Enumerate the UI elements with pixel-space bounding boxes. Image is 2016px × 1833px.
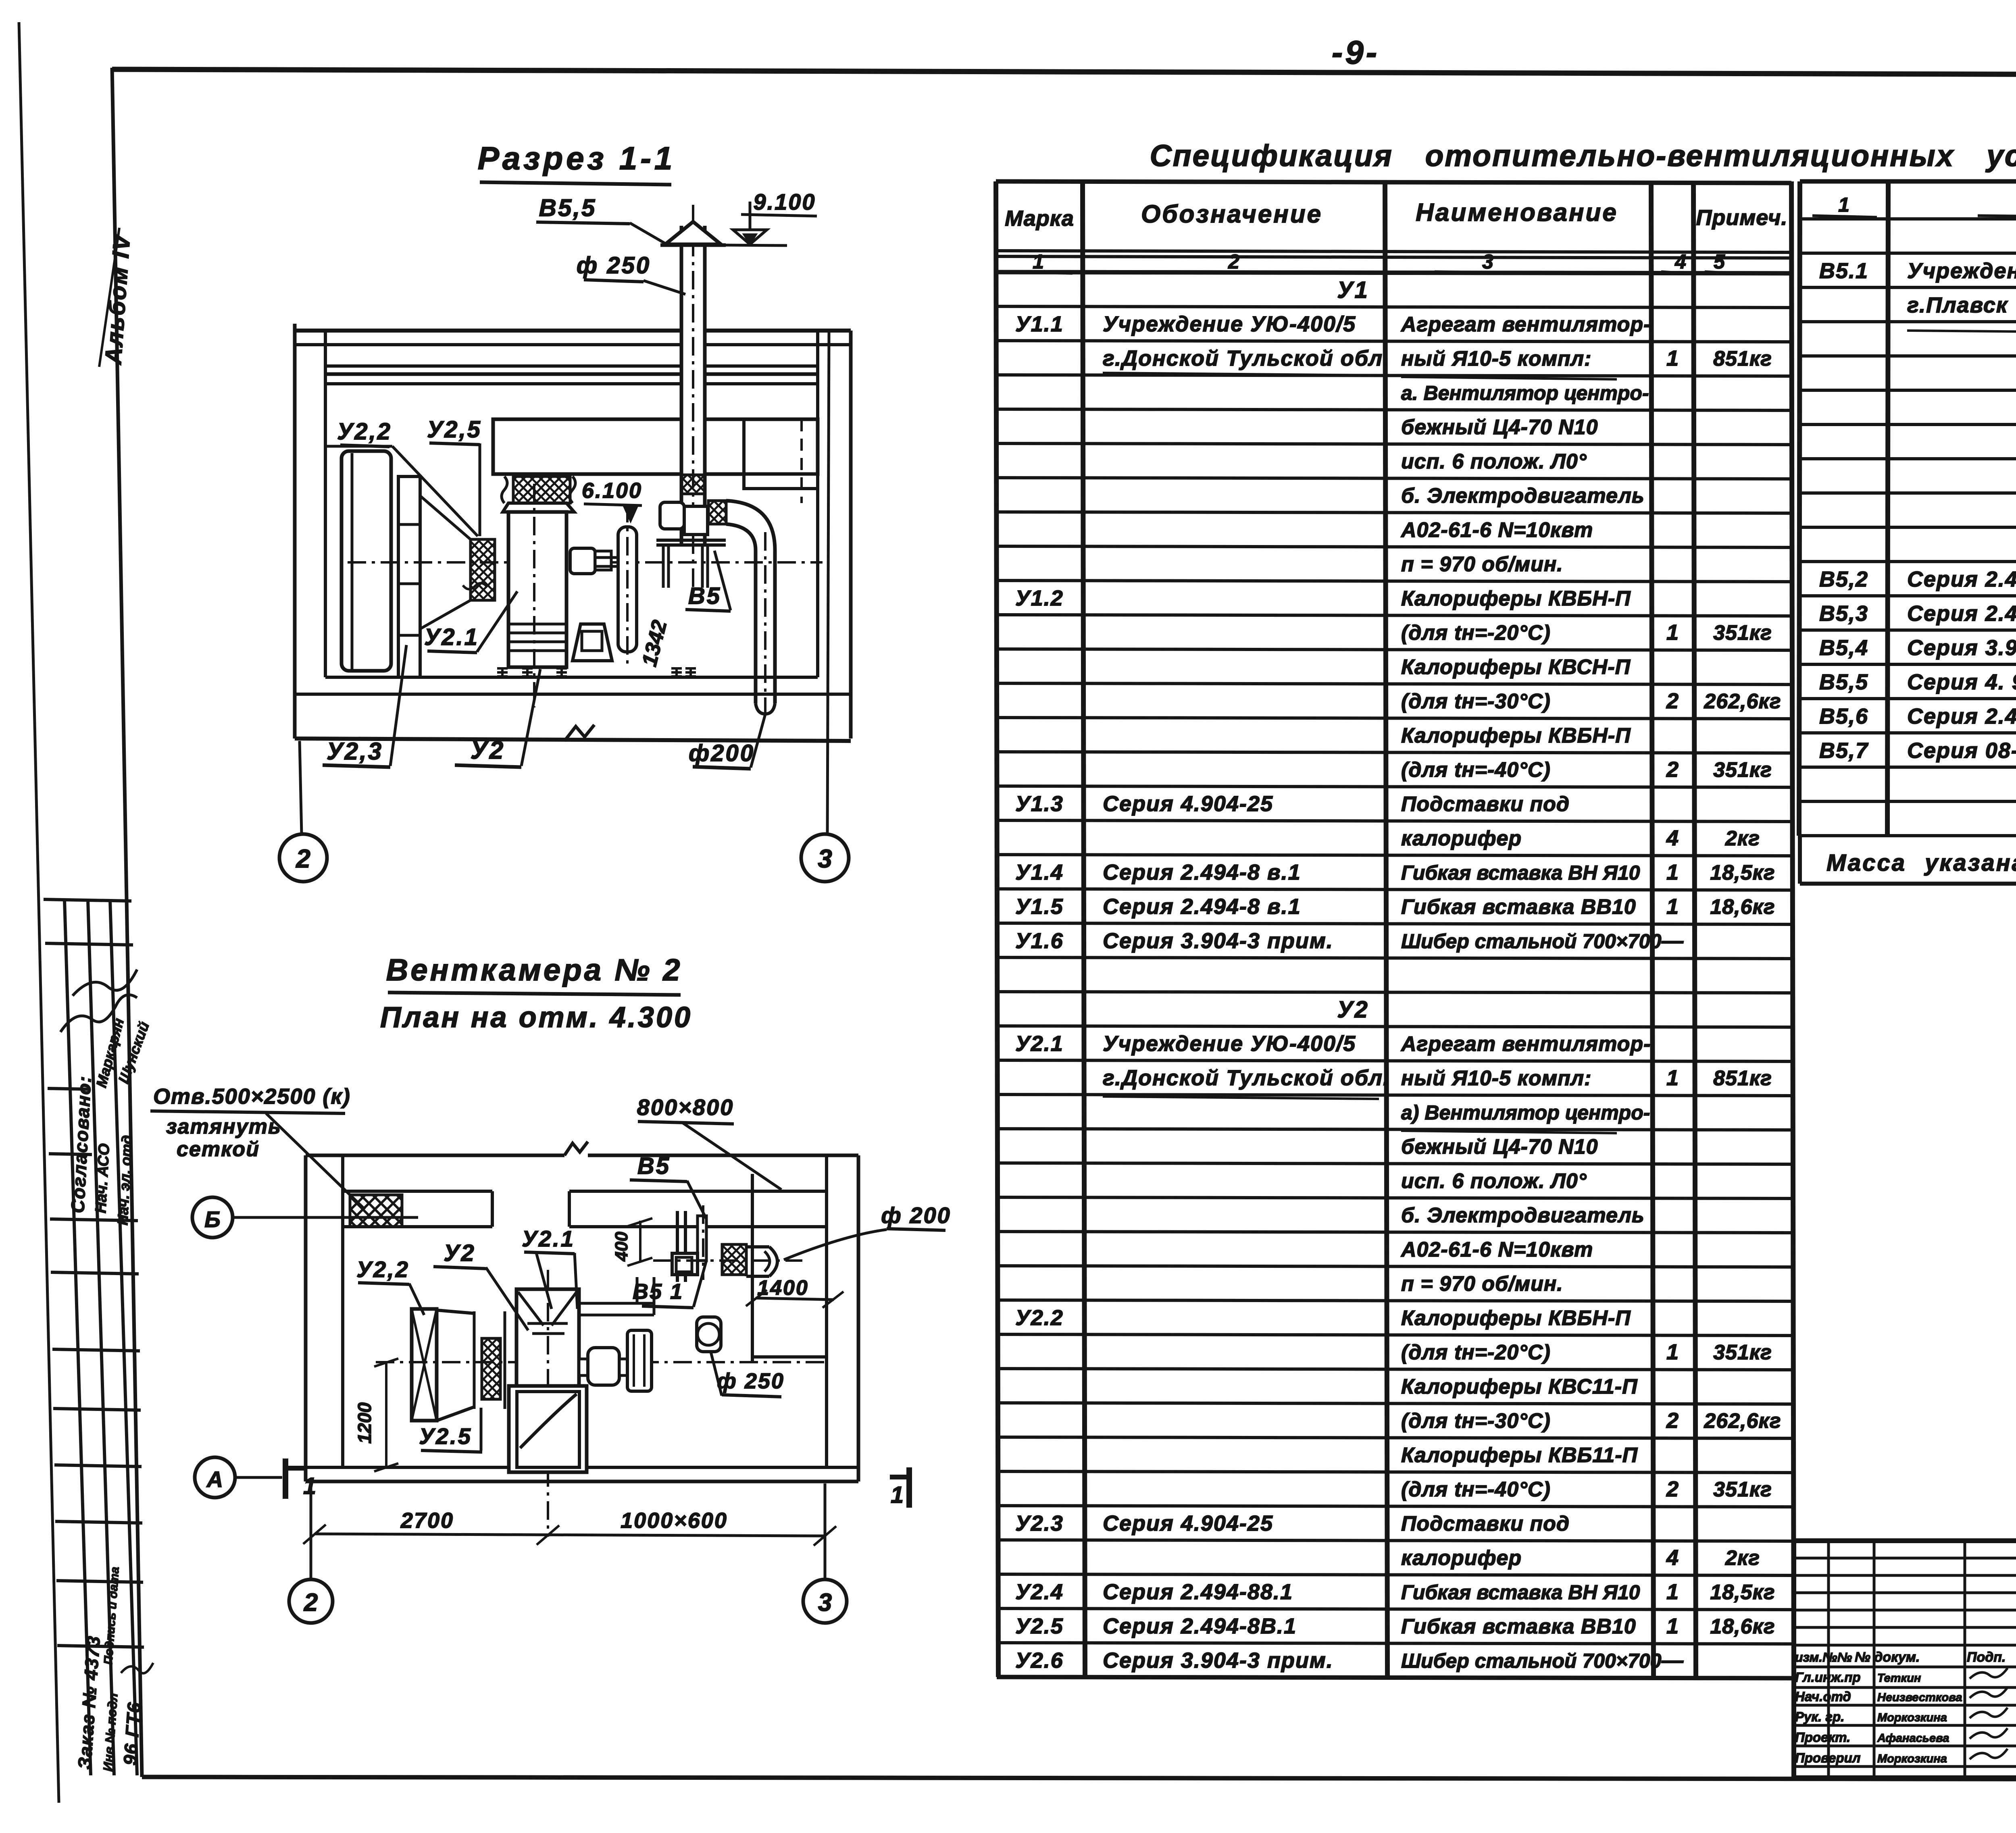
svg-text:Серия 3.904-3 прим.: Серия 3.904-3 прим. — [1103, 929, 1333, 953]
suction box У2.2 — [412, 1309, 437, 1421]
svg-text:исп. 6 полож. Л0°: исп. 6 полож. Л0° — [1401, 1169, 1587, 1193]
inner partition band — [343, 1190, 492, 1193]
svg-text:18,6кг: 18,6кг — [1710, 895, 1775, 919]
plan top wall with break — [306, 1154, 564, 1157]
svg-text:1: 1 — [1666, 860, 1679, 884]
svg-text:ный Я10-5 компл:: ный Я10-5 компл: — [1401, 347, 1591, 370]
svg-text:(для tн=-40°С): (для tн=-40°С) — [1401, 1478, 1551, 1501]
svg-text:Калориферы КВС11-П: Калориферы КВС11-П — [1401, 1375, 1638, 1398]
section mark 1 left — [283, 1458, 288, 1499]
svg-text:У2,2: У2,2 — [337, 418, 392, 445]
left approval strip table — [44, 899, 131, 901]
svg-text:Нач.отд: Нач.отд — [1795, 1689, 1851, 1704]
axis line 2 with circle — [300, 741, 302, 834]
fan У2.1 flange — [503, 503, 574, 512]
svg-text:2: 2 — [1666, 1409, 1679, 1433]
fan У2.1 bellows — [502, 476, 507, 503]
svg-text:В5: В5 — [637, 1153, 671, 1179]
svg-text:У1.1: У1.1 — [1015, 312, 1064, 336]
plan axis circle 3 — [824, 1483, 827, 1579]
svg-text:9.100: 9.100 — [753, 189, 816, 214]
svg-text:Подп.: Подп. — [1967, 1650, 2006, 1665]
svg-text:Учреждение УЮ-400/5: Учреждение УЮ-400/5 — [1103, 1032, 1356, 1056]
machine centerline — [348, 561, 823, 564]
svg-text:б. Электродвигатель: б. Электродвигатель — [1401, 484, 1645, 508]
svg-text:Рук. гр.: Рук. гр. — [1795, 1709, 1844, 1724]
svg-text:ф200: ф200 — [689, 740, 755, 766]
svg-text:Масса указана одного изд: Масса указана одного изделия — [1826, 850, 2016, 876]
paper left edge line — [19, 22, 59, 1803]
svg-text:У2.6: У2.6 — [1015, 1648, 1064, 1673]
svg-text:У1.6: У1.6 — [1015, 929, 1064, 953]
fan centerline — [533, 484, 535, 707]
duct chase vertical — [751, 1174, 754, 1363]
svg-text:Гибкая вставка ВН Я10: Гибкая вставка ВН Я10 — [1401, 861, 1640, 884]
svg-text:Серия 2.494-88.1: Серия 2.494-88.1 — [1103, 1580, 1293, 1604]
svg-text:А02-61-6 N=10квт: А02-61-6 N=10квт — [1400, 1238, 1593, 1261]
svg-text:2: 2 — [1666, 757, 1679, 782]
pulley plan — [627, 1330, 652, 1391]
svg-text:1: 1 — [891, 1482, 904, 1508]
svg-text:Афанасьева: Афанасьева — [1877, 1732, 1949, 1745]
svg-text:сеткой: сеткой — [177, 1138, 260, 1161]
svg-text:351кг: 351кг — [1713, 1478, 1772, 1501]
svg-text:Серия 08-02-118: Серия 08-02-118 — [1907, 739, 2016, 763]
signature rows — [1794, 1666, 2016, 1669]
svg-text:Калориферы КВБН-П: Калориферы КВБН-П — [1401, 724, 1631, 747]
svg-text:Отв.500×2500 (к): Отв.500×2500 (к) — [153, 1084, 351, 1109]
svg-text:(для tн=-20°С): (для tн=-20°С) — [1401, 1341, 1551, 1364]
svg-text:6.100: 6.100 — [582, 479, 642, 503]
svg-text:Калориферы КВБ11-П: Калориферы КВБ11-П — [1401, 1444, 1638, 1467]
svg-text:У2.1: У2.1 — [1015, 1032, 1064, 1056]
duct column element — [398, 476, 420, 677]
strip verticals — [65, 900, 91, 1775]
svg-text:Неизвесткова: Неизвесткова — [1877, 1691, 1962, 1704]
svg-text:2кг: 2кг — [1725, 1546, 1760, 1570]
svg-text:851кг: 851кг — [1713, 347, 1772, 370]
motor stand — [573, 624, 612, 661]
svg-text:Серия 2.494-8В.1: Серия 2.494-8В.1 — [1103, 1614, 1297, 1638]
transition cone — [420, 496, 471, 539]
plan axis circle 2 — [310, 1483, 312, 1579]
handwriting underlines left table — [1103, 373, 1378, 375]
svg-text:Гибкая вставка ВВ10: Гибкая вставка ВВ10 — [1401, 895, 1636, 919]
svg-text:1: 1 — [1666, 895, 1679, 919]
svg-text:4: 4 — [1674, 250, 1686, 273]
svg-text:затянуть: затянуть — [166, 1115, 281, 1138]
svg-text:800×800: 800×800 — [637, 1094, 734, 1120]
svg-text:План на отм. 4.300: План на отм. 4.300 — [380, 1001, 692, 1034]
svg-text:п = 970 об/мин.: п = 970 об/мин. — [1401, 1272, 1563, 1296]
svg-text:(для tн=-30°С): (для tн=-30°С) — [1401, 1409, 1551, 1433]
svg-text:Примеч.: Примеч. — [1696, 206, 1788, 230]
svg-text:У2.4: У2.4 — [1015, 1580, 1064, 1604]
svg-text:(для tн=-40°С): (для tн=-40°С) — [1401, 758, 1551, 782]
svg-text:-9-: -9- — [1332, 34, 1379, 71]
scroll box below fan — [509, 1386, 587, 1472]
svg-text:Подставки под: Подставки под — [1401, 1512, 1570, 1535]
svg-text:Проект.: Проект. — [1795, 1730, 1850, 1745]
svg-text:Серия 2.494-8В,1: Серия 2.494-8В,1 — [1907, 567, 2016, 591]
svg-text:У2,2: У2,2 — [356, 1257, 410, 1282]
svg-text:Гл.инж.пр: Гл.инж.пр — [1795, 1670, 1861, 1685]
motor shaft — [595, 556, 618, 559]
svg-text:1: 1 — [1838, 193, 1849, 216]
svg-text:2: 2 — [1666, 689, 1679, 713]
chimney flexible insert — [681, 475, 705, 494]
axis line 3 with circle — [827, 331, 829, 834]
svg-text:1: 1 — [1666, 620, 1679, 645]
svg-text:Серия 2.494-8 в.1: Серия 2.494-8 в.1 — [1103, 895, 1301, 919]
handwriting underlines right table — [1907, 331, 2016, 333]
plan bottom wall — [306, 1466, 858, 1469]
section outer walls — [295, 329, 851, 333]
svg-text:г.Донской Тульской обл.: г.Донской Тульской обл. — [1103, 346, 1390, 370]
duct to B5 — [579, 1302, 654, 1305]
floor break squiggle — [564, 725, 594, 741]
svg-text:3: 3 — [818, 1589, 832, 1617]
plan right wall — [825, 1155, 828, 1467]
fan У2.1 housing — [508, 512, 566, 667]
svg-text:Серия 4.904-25: Серия 4.904-25 — [1103, 1511, 1273, 1535]
svg-text:В5,4: В5,4 — [1819, 636, 1868, 660]
svg-text:1: 1 — [1666, 1614, 1679, 1638]
exhaust elbow duct ф200 — [708, 501, 726, 524]
svg-text:Моркозкина: Моркозкина — [1877, 1711, 1947, 1724]
svg-text:Гибкая вставка ВН Я10: Гибкая вставка ВН Я10 — [1401, 1581, 1640, 1604]
svg-text:В5,6: В5,6 — [1819, 704, 1868, 728]
title block outer — [1794, 1541, 2016, 1778]
svg-text:18,6кг: 18,6кг — [1710, 1615, 1775, 1638]
svg-text:(для tн=-20°С): (для tн=-20°С) — [1401, 621, 1551, 645]
svg-text:У1.3: У1.3 — [1015, 792, 1064, 816]
level mark 9.100 — [726, 245, 787, 246]
svg-text:Венткамера № 2: Венткамера № 2 — [386, 953, 682, 987]
drawing frame top border — [112, 69, 2016, 76]
svg-text:бежный Ц4-70 N10: бежный Ц4-70 N10 — [1401, 416, 1598, 439]
plenum lower right box — [744, 474, 818, 489]
belt pulley column — [618, 527, 637, 652]
motor — [570, 548, 595, 574]
svg-text:Серия 2.494-1: Серия 2.494-1 — [1907, 704, 2016, 728]
svg-text:Учреждение УЮ-400/5: Учреждение УЮ-400/5 — [1103, 312, 1356, 336]
svg-text:Серия 3.904-3 прим.: Серия 3.904-3 прим. — [1907, 636, 2016, 660]
svg-text:ф 250: ф 250 — [717, 1369, 785, 1393]
svg-text:У1.5: У1.5 — [1015, 895, 1064, 919]
axis Б circle — [192, 1197, 233, 1238]
svg-text:Агрегат вентилятор-: Агрегат вентилятор- — [1400, 1032, 1651, 1056]
bottom dimension line — [314, 1534, 825, 1536]
svg-text:18,5кг: 18,5кг — [1710, 861, 1775, 884]
svg-text:4: 4 — [1666, 1546, 1679, 1570]
strip signatures — [60, 995, 137, 1032]
svg-text:Учреждение УЮ-400/4: Учреждение УЮ-400/4 — [1907, 259, 2016, 283]
svg-text:351кг: 351кг — [1713, 621, 1772, 645]
dashed fan axis right — [800, 419, 803, 503]
svg-text:2700: 2700 — [400, 1508, 454, 1533]
svg-text:У1.2: У1.2 — [1015, 586, 1064, 610]
svg-text:2: 2 — [1228, 250, 1239, 273]
svg-text:851кг: 851кг — [1713, 1067, 1772, 1090]
svg-text:ный Я10-5 компл:: ный Я10-5 компл: — [1401, 1067, 1591, 1090]
svg-text:Калориферы КВБН-П: Калориферы КВБН-П — [1401, 1307, 1631, 1330]
svg-text:Серия 4. 904-12: Серия 4. 904-12 — [1907, 670, 2016, 694]
svg-text:1400: 1400 — [757, 1276, 809, 1300]
svg-text:У2.2: У2.2 — [1015, 1306, 1064, 1330]
left spec table grid — [996, 181, 998, 1677]
svg-text:калорифер: калорифер — [1401, 1546, 1522, 1570]
svg-text:Моркозкина: Моркозкина — [1877, 1752, 1947, 1765]
svg-text:Проверил: Проверил — [1795, 1750, 1860, 1765]
svg-text:У2,3: У2,3 — [327, 738, 383, 765]
svg-text:1200: 1200 — [354, 1402, 375, 1444]
plan left wall — [304, 1155, 308, 1481]
svg-text:(для tн=-30°С): (для tн=-30°С) — [1401, 690, 1551, 713]
svg-text:В5,7: В5,7 — [1819, 739, 1869, 763]
svg-text:п = 970 об/мин.: п = 970 об/мин. — [1401, 553, 1563, 576]
svg-text:18,5кг: 18,5кг — [1710, 1581, 1775, 1604]
svg-text:Разрез 1-1: Разрез 1-1 — [478, 140, 676, 176]
svg-text:У2.5: У2.5 — [1015, 1614, 1064, 1638]
svg-text:2кг: 2кг — [1725, 827, 1760, 850]
filter insert (hatched) — [473, 1311, 476, 1409]
svg-text:а) Вентилятор центро-: а) Вентилятор центро- — [1401, 1101, 1650, 1124]
svg-text:В5,2: В5,2 — [1819, 567, 1868, 591]
svg-text:В5: В5 — [688, 583, 721, 609]
svg-text:Серия 2.494-8 в.1: Серия 2.494-8 в.1 — [1103, 860, 1301, 884]
svg-text:Серия 2.494-8В,1: Серия 2.494-8В,1 — [1907, 601, 2016, 626]
svg-text:У2: У2 — [471, 737, 505, 764]
svg-text:У2.1: У2.1 — [424, 624, 479, 650]
svg-text:калорифер: калорифер — [1401, 827, 1522, 850]
svg-text:Калориферы КВБН-П: Калориферы КВБН-П — [1401, 587, 1631, 610]
chimney umbrella cap — [665, 222, 721, 244]
svg-text:ф 250: ф 250 — [577, 252, 651, 279]
svg-text:1: 1 — [1033, 250, 1044, 273]
svg-text:—: — — [1661, 929, 1684, 953]
svg-text:а. Вентилятор центро-: а. Вентилятор центро- — [1401, 382, 1649, 404]
ceiling plenum box — [493, 419, 818, 474]
svg-text:У2.5: У2.5 — [419, 1423, 472, 1449]
svg-text:Серия 4.904-25: Серия 4.904-25 — [1103, 792, 1273, 816]
fan housing plan — [516, 1289, 579, 1388]
intake cone — [437, 1310, 474, 1313]
svg-text:Подставки под: Подставки под — [1401, 793, 1570, 816]
В5 fan unit on bracket — [660, 502, 684, 529]
svg-text:Марка: Марка — [1005, 206, 1074, 231]
svg-text:3: 3 — [1482, 250, 1493, 273]
opening with mesh (hatched) — [350, 1195, 402, 1227]
svg-text:изм.№№: изм.№№ — [1795, 1650, 1852, 1664]
svg-text:Калориферы КВСН-П: Калориферы КВСН-П — [1401, 655, 1631, 679]
plan machine centerline — [376, 1361, 827, 1363]
fan vertical centerline — [547, 1270, 549, 1537]
svg-text:б. Электродвигатель: б. Электродвигатель — [1401, 1204, 1645, 1227]
svg-text:351кг: 351кг — [1713, 758, 1772, 782]
svg-text:У2.3: У2.3 — [1015, 1511, 1064, 1535]
svg-text:У1.4: У1.4 — [1015, 860, 1064, 884]
svg-text:Обозначение: Обозначение — [1141, 200, 1322, 228]
svg-text:Шибер стальной 700×700: Шибер стальной 700×700 — [1401, 930, 1662, 953]
flexible insert (hatched) — [471, 539, 495, 600]
svg-text:Гибкая вставка ВВ10: Гибкая вставка ВВ10 — [1401, 1615, 1636, 1638]
svg-text:исп. 6 полож. Л0°: исп. 6 полож. Л0° — [1401, 450, 1587, 473]
В5 silencer ф200 — [746, 1245, 769, 1248]
svg-text:В5.1: В5.1 — [1819, 259, 1868, 283]
svg-text:В5,5: В5,5 — [539, 194, 597, 221]
axis А circle — [195, 1457, 235, 1498]
floor lines — [325, 676, 818, 679]
svg-text:1: 1 — [1666, 1066, 1679, 1090]
svg-text:2: 2 — [296, 844, 310, 873]
svg-text:г.Плавск Тульской обл.: г.Плавск Тульской обл. — [1907, 293, 2016, 317]
section mark 1 right — [906, 1467, 912, 1508]
svg-text:351кг: 351кг — [1713, 1341, 1772, 1364]
right spec table grid — [1799, 181, 1800, 836]
svg-text:262,6кг: 262,6кг — [1704, 1409, 1781, 1433]
title block left grid — [1794, 1557, 2016, 1560]
svg-text:Теткин: Теткин — [1877, 1672, 1921, 1685]
svg-text:Серия 3.904-3 прим.: Серия 3.904-3 прим. — [1103, 1648, 1333, 1673]
vibration springs — [497, 668, 508, 677]
svg-text:бежный Ц4-70 N10: бежный Ц4-70 N10 — [1401, 1135, 1598, 1159]
svg-text:У2: У2 — [1337, 997, 1369, 1023]
svg-text:96 ГТ6: 96 ГТ6 — [119, 1701, 145, 1766]
svg-text:5: 5 — [1714, 250, 1725, 273]
svg-text:2: 2 — [1666, 1477, 1679, 1501]
svg-text:Спецификация отопительно-вент: Спецификация отопительно-вентиляционных … — [1150, 139, 2016, 173]
svg-text:Б: Б — [204, 1207, 221, 1232]
svg-text:Наименование: Наименование — [1416, 199, 1618, 227]
В5 centerline — [653, 1259, 802, 1262]
svg-text:400: 400 — [612, 1232, 631, 1262]
svg-text:У2.1: У2.1 — [522, 1226, 575, 1251]
wavy break on flexible insert — [463, 583, 487, 589]
svg-text:262,6кг: 262,6кг — [1704, 690, 1781, 713]
svg-text:В5 1: В5 1 — [633, 1280, 683, 1304]
svg-text:1000×600: 1000×600 — [621, 1508, 728, 1533]
svg-text:—: — — [1661, 1648, 1684, 1673]
svg-text:А: А — [206, 1467, 223, 1492]
drawing frame left border — [112, 68, 142, 1777]
svg-text:У2,5: У2,5 — [427, 416, 482, 443]
В5 unit plan — [676, 1211, 679, 1282]
svg-text:№ докум.: № докум. — [1855, 1650, 1920, 1665]
chimney stack — [681, 226, 705, 544]
svg-text:ф 200: ф 200 — [881, 1203, 951, 1228]
svg-text:В5,5: В5,5 — [1819, 670, 1868, 694]
heater unit У2.2 panel — [342, 451, 391, 671]
svg-text:1: 1 — [1666, 1340, 1679, 1364]
svg-text:1: 1 — [1666, 1580, 1679, 1604]
svg-text:В5,3: В5,3 — [1819, 601, 1868, 626]
svg-text:4: 4 — [1666, 826, 1679, 850]
drawing frame bottom border — [142, 1777, 2016, 1780]
svg-text:У1: У1 — [1337, 277, 1369, 303]
svg-text:3: 3 — [818, 844, 832, 873]
svg-text:г.Донской Тульской обл.: г.Донской Тульской обл. — [1103, 1066, 1390, 1090]
svg-text:У2: У2 — [444, 1240, 476, 1266]
ф250 pipe plan — [697, 1317, 721, 1352]
motor plan — [579, 1359, 588, 1375]
roof band lines — [295, 343, 851, 346]
svg-text:1: 1 — [1666, 346, 1679, 370]
svg-text:Агрегат вентилятор-: Агрегат вентилятор- — [1400, 313, 1651, 336]
svg-text:Шибер стальной 700×700: Шибер стальной 700×700 — [1401, 1650, 1662, 1672]
svg-text:А02-61-6 N=10квт: А02-61-6 N=10квт — [1400, 518, 1593, 542]
svg-text:2: 2 — [304, 1589, 318, 1617]
